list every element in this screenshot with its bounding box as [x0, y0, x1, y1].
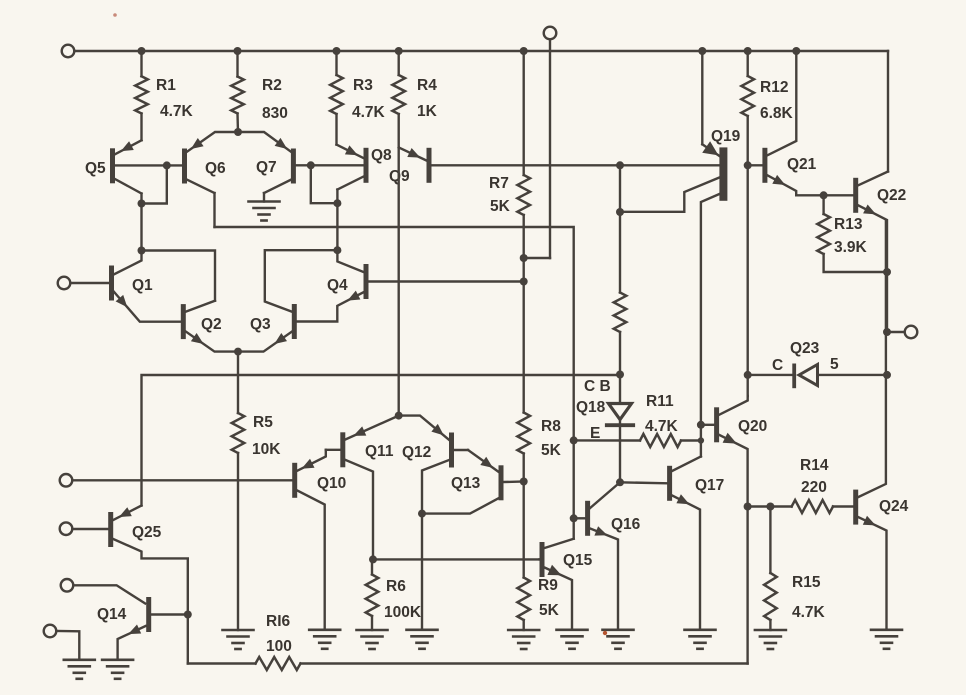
node Q21 base junction [744, 161, 752, 169]
wire Q4 base to R7/R8 node [369, 280, 524, 282]
svg-text:Q23: Q23 [790, 340, 820, 357]
svg-text:Q2: Q2 [201, 316, 222, 333]
wire Q20 emitter to R14 [748, 505, 792, 507]
terminal output [887, 326, 917, 339]
svg-text:Q21: Q21 [787, 156, 817, 173]
node R7-R8 terminal tap [520, 254, 528, 262]
wire Q6 collector bus [215, 227, 574, 440]
svg-text:4.7K: 4.7K [352, 104, 386, 121]
svg-text:100: 100 [266, 638, 292, 655]
svg-text:220: 220 [801, 479, 827, 496]
node top rail junction dots [138, 47, 801, 55]
wire top rail [142, 51, 889, 172]
node R6 top junction [369, 555, 377, 563]
svg-text:R8: R8 [541, 418, 561, 435]
resistor R3 [330, 51, 385, 145]
node Q18 top junction [616, 371, 624, 379]
node Q16 base tap [570, 514, 578, 522]
svg-text:4.7K: 4.7K [160, 103, 194, 120]
ground under Q12 [407, 630, 438, 649]
resistor R5 [232, 413, 282, 458]
label Q23 C [772, 357, 783, 374]
svg-text:6.8K: 6.8K [760, 105, 794, 122]
svg-text:10K: 10K [252, 441, 281, 458]
svg-text:Q16: Q16 [611, 516, 641, 533]
svg-text:Q6: Q6 [205, 160, 226, 177]
transistor Q7 [238, 132, 296, 202]
wire Q5 collector down to Q1 [140, 204, 142, 251]
svg-text:R14: R14 [800, 457, 829, 474]
svg-text:RI6: RI6 [266, 613, 291, 630]
terminal input Q1 [58, 277, 109, 290]
svg-text:R9: R9 [538, 577, 558, 594]
transistor Q20 [701, 396, 767, 507]
svg-text:Q15: Q15 [563, 552, 593, 569]
resistor R12 [741, 51, 793, 165]
resistor R2 [231, 51, 288, 133]
ground under Q17 [685, 630, 716, 649]
ground under Q7 [249, 202, 280, 221]
wire Q7-Q8 base line [295, 164, 363, 166]
svg-text:5K: 5K [490, 198, 511, 215]
ground under R5 [223, 630, 254, 649]
transistor Q21 [748, 51, 854, 195]
label Q18 C B [584, 378, 611, 395]
svg-text:1K: 1K [417, 103, 438, 120]
transistor Q5 [85, 140, 142, 203]
node Q19 collector tap [616, 208, 624, 216]
wire R7 to R8 [523, 215, 525, 413]
wire R8 to R9 [523, 454, 525, 578]
terminal input Q14 [61, 579, 146, 604]
svg-text:Q8: Q8 [371, 147, 392, 164]
node Q20 emitter junction [744, 503, 752, 511]
svg-text:Q20: Q20 [738, 418, 767, 435]
resistor (unlabeled) [614, 293, 627, 333]
svg-text:Q5: Q5 [85, 160, 106, 177]
svg-text:Q17: Q17 [695, 477, 724, 494]
wire R5 to ground [237, 453, 239, 630]
svg-text:R11: R11 [646, 393, 674, 410]
wire Q9 collector line to Q19 [432, 164, 720, 166]
svg-text:Q24: Q24 [879, 498, 909, 515]
node R13 bottom junction [883, 268, 891, 276]
node Q11/Q12 emitter junction [395, 412, 403, 420]
svg-text:Q12: Q12 [402, 444, 431, 461]
ground under Q14 [102, 660, 133, 679]
label Q23 5 [830, 356, 839, 373]
terminal input Q10 [60, 474, 293, 487]
svg-text:Q18: Q18 [576, 399, 606, 416]
resistor R8 [517, 413, 561, 460]
wire Q8 collector down [336, 203, 338, 250]
node Q5 base junction [163, 161, 171, 169]
svg-text:Q14: Q14 [97, 606, 127, 623]
svg-text:C: C [772, 357, 783, 374]
transistor Q8 [337, 145, 393, 204]
node R11 right junction [698, 437, 704, 443]
svg-text:R4: R4 [417, 77, 437, 94]
svg-text:5: 5 [830, 356, 839, 373]
transistor Q6 [182, 132, 238, 227]
resistor R11 [640, 393, 701, 447]
svg-text:Q1: Q1 [132, 277, 153, 294]
svg-text:4.7K: 4.7K [792, 604, 826, 621]
transistor Q13 [422, 450, 524, 514]
resistor R15 [764, 507, 825, 631]
wire E line [574, 439, 640, 442]
ground under R15 [755, 630, 786, 649]
svg-text:R12: R12 [760, 79, 788, 96]
wire Q5 collector-base loop [142, 165, 167, 203]
node R13 top junction [820, 191, 828, 199]
resistor R6 [366, 559, 422, 630]
node Q13 base tap [520, 478, 528, 486]
ground under Q24 [871, 630, 902, 649]
transistor Q17 [620, 457, 724, 630]
wire R9 to ground [523, 620, 525, 630]
terminal V+ (top-left) [62, 45, 142, 58]
transistor Q16 [574, 482, 640, 630]
svg-text:Q13: Q13 [451, 475, 481, 492]
node Q1 collector junction [138, 247, 146, 255]
node Q4 base tap [520, 278, 528, 286]
transistor Q2 [181, 301, 238, 352]
svg-text:830: 830 [262, 105, 288, 122]
node Q8 base junction [307, 161, 315, 169]
svg-text:R5: R5 [253, 414, 273, 431]
terminal input ground (bottom-left) [44, 625, 80, 660]
wire column to resistor [619, 165, 621, 292]
transistor Q1 [109, 251, 181, 322]
terminal input Q25 [60, 522, 108, 535]
resistor R1 [135, 51, 193, 140]
svg-text:Q19: Q19 [711, 128, 741, 145]
wire R12 column to Q23 node [747, 165, 749, 396]
node E-line left junction [570, 436, 578, 444]
wire V+ to R7 [523, 51, 525, 175]
node Q14 collector junction [184, 611, 192, 619]
svg-text:5K: 5K [541, 442, 562, 459]
transistor Q11 [326, 416, 399, 560]
node Q17 base junction [616, 478, 624, 486]
transistor Q14 [97, 597, 188, 660]
svg-text:R2: R2 [262, 77, 282, 94]
diode-connected transistor Q18 [576, 399, 633, 441]
svg-text:R6: R6 [386, 578, 406, 595]
svg-text:5K: 5K [539, 602, 560, 619]
wire Q16 base column [573, 440, 575, 538]
svg-text:Q4: Q4 [327, 277, 348, 294]
transistor Q12 [399, 416, 468, 630]
ground under Q16 [603, 630, 634, 649]
node R15 top junction [766, 503, 774, 511]
ground under Q15 [557, 630, 588, 649]
node R2 bottom junction [234, 128, 242, 136]
node Q8 collector junction [333, 199, 341, 207]
resistor R13 [817, 195, 887, 272]
svg-text:4.7K: 4.7K [645, 418, 679, 435]
svg-text:R13: R13 [834, 216, 863, 233]
resistor R16 [256, 613, 301, 670]
wire tail to R5 [237, 352, 239, 413]
resistor R7 [489, 175, 530, 215]
svg-text:R3: R3 [353, 77, 373, 94]
transistor Q10 [292, 450, 346, 630]
wire R6 node to Q15 base [372, 558, 540, 560]
wire Q8 collector-base loop [311, 165, 338, 203]
node output junction [883, 328, 891, 336]
resistor R14 [792, 457, 854, 513]
transistor Q25 [108, 506, 188, 615]
transistor Q15 [540, 539, 593, 630]
ground under R6 [357, 630, 388, 649]
wire bottom rail [188, 507, 748, 664]
ground under R9 [508, 630, 539, 649]
ground under Q10 [309, 630, 340, 649]
svg-text:Q22: Q22 [877, 187, 906, 204]
svg-text:100K: 100K [384, 604, 422, 621]
resistor R9 [517, 577, 559, 620]
svg-text:R7: R7 [489, 175, 509, 192]
transistor Q24 [853, 221, 908, 630]
terminal top-middle [524, 27, 557, 258]
transistor Q4 [297, 250, 369, 321]
node Q3/Q4 collector junction [333, 246, 341, 254]
node Q23 left junction [744, 371, 752, 379]
node Q5 collector junction [138, 200, 146, 208]
node Q19 base tap [616, 161, 624, 169]
svg-text:Q25: Q25 [132, 524, 162, 541]
node tail junction [234, 348, 242, 356]
transistor Q3 [238, 250, 337, 351]
svg-text:Q11: Q11 [365, 443, 394, 460]
ground under bottom-left input [64, 660, 95, 679]
artifact speck [113, 13, 607, 635]
wire Q25 emitter to Q18 node [142, 375, 621, 506]
node Q23 right junction [883, 371, 891, 379]
svg-text:C B: C B [584, 378, 611, 395]
diode Q23 [748, 340, 887, 388]
svg-text:Q10: Q10 [317, 475, 346, 492]
svg-text:R15: R15 [792, 574, 821, 591]
wire resistor to Q18 [619, 332, 621, 404]
node Q20 base tap [697, 421, 705, 429]
resistor R4 [392, 51, 437, 147]
node Q12/Q13 collector junction [418, 510, 426, 518]
svg-text:3.9K: 3.9K [834, 239, 868, 256]
svg-text:Q3: Q3 [250, 316, 271, 333]
transistor Q19 [701, 51, 741, 457]
transistor Q9 [389, 147, 432, 185]
wire Q1 collector to Q2 collector [142, 251, 216, 301]
wire R4 column down to Q11/Q12 node [398, 147, 400, 415]
wire Q18 E to Q17 base tap [619, 441, 621, 483]
svg-text:Q7: Q7 [256, 159, 277, 176]
wire Q19 collector to column [620, 178, 719, 212]
label Q18 E [590, 425, 600, 442]
transistor Q22 [853, 172, 906, 334]
wire Q5 base to Q6 [115, 164, 182, 166]
svg-text:R1: R1 [156, 77, 176, 94]
